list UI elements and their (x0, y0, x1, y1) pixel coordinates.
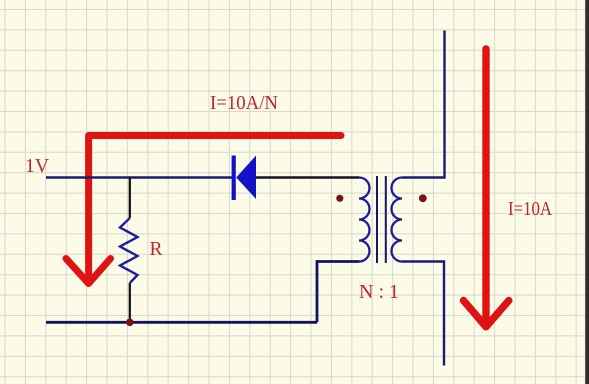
transformer T1 secondary winding (392, 178, 403, 262)
wire transformer secondary top to right vertical (402, 31, 445, 178)
svg-text:I=10A/N: I=10A/N (210, 92, 278, 114)
wire 1V net horizontal (46, 176, 234, 178)
svg-text:R: R (150, 238, 164, 260)
wire transformer secondary bottom to right vertical down (402, 262, 444, 366)
resistor R1 bottom lead (129, 283, 131, 322)
transformer T1 primary polarity dot (336, 195, 343, 202)
transformer T1 primary winding (359, 178, 370, 262)
svg-text:I=10A: I=10A (508, 198, 552, 220)
wire diode to transformer primary top (255, 176, 359, 178)
resistor R1 top lead (129, 177, 131, 219)
current arrow I=10A (red, right side, pointing down) (464, 49, 509, 327)
transformer T1 core line right (385, 176, 387, 263)
wire transformer primary bottom to left corner (317, 262, 359, 323)
transformer T1 core line left (376, 176, 378, 263)
svg-text:1V: 1V (25, 155, 50, 177)
transformer T1 secondary polarity dot (419, 194, 427, 202)
current arrow I=10A/N (red, top-left, bends down to tip) (66, 136, 341, 284)
diode D1 anode triangle (236, 156, 256, 200)
svg-text:N : 1: N : 1 (359, 281, 399, 303)
junction dot resistor-bottom node (126, 319, 134, 327)
diode D1 cathode bar (232, 156, 236, 201)
resistor R1 zigzag body (120, 218, 138, 283)
wire bottom return (46, 321, 317, 324)
